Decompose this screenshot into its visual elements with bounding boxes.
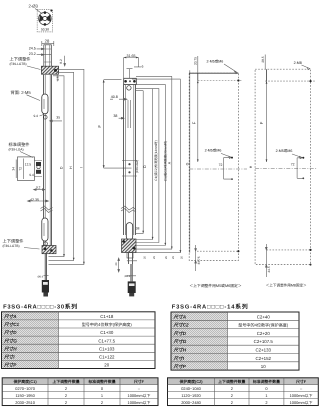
svg-text:33.75: 33.75 xyxy=(197,256,201,264)
svg-text:20.75: 20.75 xyxy=(194,57,198,65)
svg-text:上下调整件: 上下调整件 xyxy=(10,57,31,62)
svg-text:(F39-LGA): (F39-LGA) xyxy=(135,160,139,173)
rect1 mounting fig M5/M6 xyxy=(189,73,247,260)
svg-text:35: 35 xyxy=(56,116,60,120)
svg-text:尺寸G: 尺寸G xyxy=(173,339,187,344)
svg-text:9.4: 9.4 xyxy=(29,173,34,177)
svg-text:34: 34 xyxy=(11,167,15,171)
rect2 mounting fig M8 xyxy=(255,69,317,265)
column 2 body xyxy=(124,85,136,236)
svg-text:72: 72 xyxy=(18,167,22,171)
svg-text:F: F xyxy=(97,125,102,128)
svg-text:2000~2480: 2000~2480 xyxy=(181,400,201,405)
svg-text:2: 2 xyxy=(101,400,103,405)
top view detail box xyxy=(37,10,52,32)
break marks col2 xyxy=(121,206,136,213)
svg-text:H: H xyxy=(69,166,73,169)
svg-text:C1+122: C1+122 xyxy=(99,354,115,359)
svg-text:2-M8: 2-M8 xyxy=(294,61,302,65)
svg-text:D: D xyxy=(143,165,147,168)
svg-text:保护高度(C1): 保护高度(C1) xyxy=(13,379,38,384)
col1 dimension lines D H I xyxy=(49,69,85,264)
svg-text:保护高度(C2): 保护高度(C2) xyxy=(178,379,203,384)
svg-text:Ø6.6: Ø6.6 xyxy=(125,275,131,278)
dim table 14 series xyxy=(171,312,299,370)
svg-text:2030~2510: 2030~2510 xyxy=(15,400,35,405)
svg-text:50.38: 50.38 xyxy=(41,27,49,31)
svg-text:28: 28 xyxy=(45,38,50,43)
svg-text:40.8: 40.8 xyxy=(111,95,118,99)
svg-text:38: 38 xyxy=(113,114,117,118)
svg-text:42.35: 42.35 xyxy=(30,198,39,202)
F dim line xyxy=(103,80,132,168)
connector col2 xyxy=(128,281,136,293)
svg-text:1150~1950: 1150~1950 xyxy=(15,393,35,398)
svg-text:2-Ø3: 2-Ø3 xyxy=(29,4,39,9)
svg-text:(F39-LGA): (F39-LGA) xyxy=(9,148,24,152)
svg-text:I: I xyxy=(79,167,83,168)
svg-text:C2+20: C2+20 xyxy=(257,331,271,336)
column 1 body xyxy=(44,75,52,246)
svg-text:(F39-LGTB): (F39-LGTB) xyxy=(10,62,27,66)
svg-text:0270~1070: 0270~1070 xyxy=(15,386,35,391)
column 2 cap xyxy=(124,78,137,84)
svg-text:尺寸G: 尺寸G xyxy=(3,338,17,343)
col2 dimension lines D C14 C30 A G xyxy=(132,70,190,253)
svg-text:标准调整件数量: 标准调整件数量 xyxy=(87,379,115,384)
svg-text:＜上下调整件用M5或M6固定＞: ＜上下调整件用M5或M6固定＞ xyxy=(189,283,242,288)
svg-text:2: 2 xyxy=(65,400,67,405)
slot lower xyxy=(42,218,48,241)
svg-text:1000mm以下: 1000mm以下 xyxy=(290,400,313,405)
svg-text:标准调整件: 标准调整件 xyxy=(9,142,30,147)
svg-text:12.5: 12.5 xyxy=(25,162,31,166)
slot upper F39 xyxy=(42,94,48,114)
svg-text:1: 1 xyxy=(101,393,103,398)
svg-text:尺寸I: 尺寸I xyxy=(3,354,15,359)
svg-text:尺寸F: 尺寸F xyxy=(133,379,145,384)
svg-text:尺寸C1: 尺寸C1 xyxy=(3,322,20,327)
cable col2 xyxy=(128,253,132,281)
column 1 top piece xyxy=(44,45,52,68)
hatched bracket top xyxy=(41,66,58,74)
svg-text:2: 2 xyxy=(65,393,67,398)
svg-text:28.5: 28.5 xyxy=(261,56,265,62)
svg-text:C1+103: C1+103 xyxy=(99,346,115,351)
dim table 30 series xyxy=(2,312,156,369)
svg-text:Ø6.6: Ø6.6 xyxy=(38,276,44,279)
bracket count table C1 xyxy=(2,378,158,406)
svg-text:F3SG-4RA□□□□-30系列: F3SG-4RA□□□□-30系列 xyxy=(3,303,77,310)
svg-text:型号中的4位数字(保护高度): 型号中的4位数字(保护高度) xyxy=(82,322,133,327)
svg-text:0240~1040: 0240~1040 xyxy=(181,386,201,391)
svg-text:尺寸D: 尺寸D xyxy=(3,330,17,335)
svg-text:8.2: 8.2 xyxy=(59,59,63,64)
svg-text:C2+40: C2+40 xyxy=(257,314,271,319)
svg-text:尺寸I: 尺寸I xyxy=(173,356,185,361)
svg-text:C1(或C2)检测宽度(14mm时): C1(或C2)检测宽度(14mm时) xyxy=(154,140,158,180)
svg-text:尺寸H: 尺寸H xyxy=(173,348,187,353)
svg-text:尺寸A: 尺寸A xyxy=(173,314,187,319)
std bracket detail xyxy=(18,157,43,181)
svg-text:1000mm以下: 1000mm以下 xyxy=(128,400,151,405)
svg-text:尺寸H: 尺寸H xyxy=(3,346,17,351)
svg-text:9.4: 9.4 xyxy=(34,114,39,118)
svg-text:C1+18: C1+18 xyxy=(100,314,114,319)
svg-text:C1(或C2)检测宽度(30mm时): C1(或C2)检测宽度(30mm时) xyxy=(164,141,168,181)
svg-text:F3SG-4RA□□□□-14系列: F3SG-4RA□□□□-14系列 xyxy=(172,303,248,310)
svg-text:尺寸F: 尺寸F xyxy=(295,379,307,384)
col2 bottom bracket xyxy=(122,223,137,258)
svg-text:尺寸P: 尺寸P xyxy=(173,364,187,369)
svg-text:6: 6 xyxy=(142,64,144,68)
svg-text:20: 20 xyxy=(104,363,109,368)
svg-text:2: 2 xyxy=(231,400,233,405)
svg-text:上下调整件数量: 上下调整件数量 xyxy=(52,379,79,384)
svg-text:38: 38 xyxy=(136,227,140,231)
svg-text:2-M5或M6: 2-M5或M6 xyxy=(207,58,224,63)
svg-text:9.2: 9.2 xyxy=(36,186,41,190)
hatched bracket bottom xyxy=(42,246,56,254)
svg-text:C2+133: C2+133 xyxy=(255,348,271,353)
svg-text:F: F xyxy=(259,121,264,124)
connector col1 xyxy=(42,280,49,293)
svg-text:72: 72 xyxy=(219,163,223,167)
svg-text:2-M5或M6: 2-M5或M6 xyxy=(276,148,293,153)
svg-text:F: F xyxy=(191,121,196,124)
cable col1 xyxy=(45,254,46,280)
svg-text:标准调整件数量: 标准调整件数量 xyxy=(252,379,280,384)
svg-text:1: 1 xyxy=(265,393,267,398)
svg-text:1000mm以下: 1000mm以下 xyxy=(128,393,151,398)
svg-text:背面: 2-M5: 背面: 2-M5 xyxy=(11,90,32,95)
break marks col1 xyxy=(41,206,53,213)
svg-text:上下调整件: 上下调整件 xyxy=(3,239,24,244)
svg-text:尺寸D: 尺寸D xyxy=(173,331,187,336)
svg-text:1120~1920: 1120~1920 xyxy=(181,393,201,398)
svg-text:10: 10 xyxy=(261,364,266,369)
svg-text:23.2: 23.2 xyxy=(29,52,36,56)
svg-text:72: 72 xyxy=(291,163,295,167)
svg-text:尺寸A: 尺寸A xyxy=(3,314,17,319)
svg-text:24.5: 24.5 xyxy=(29,46,36,50)
svg-text:2: 2 xyxy=(65,386,67,391)
svg-text:4.5: 4.5 xyxy=(56,76,60,81)
svg-text:2: 2 xyxy=(231,386,233,391)
svg-text:2: 2 xyxy=(265,400,267,405)
svg-text:尺寸P: 尺寸P xyxy=(3,363,17,368)
bracket count table C2 xyxy=(168,378,319,406)
svg-text:C2+152: C2+152 xyxy=(255,356,271,361)
svg-text:H: H xyxy=(249,165,253,168)
svg-text:1000mm以下: 1000mm以下 xyxy=(290,393,313,398)
svg-text:尺寸C2: 尺寸C2 xyxy=(173,323,190,328)
svg-text:＜上下调整件用M8固定＞: ＜上下调整件用M8固定＞ xyxy=(266,283,307,288)
col2 middle bracket xyxy=(122,160,139,176)
svg-text:2: 2 xyxy=(231,393,233,398)
svg-text:(F39-LGTB): (F39-LGTB) xyxy=(3,244,20,248)
svg-text:型号中的4位数字(保护高度): 型号中的4位数字(保护高度) xyxy=(238,323,289,328)
svg-text:C1+30: C1+30 xyxy=(100,330,114,335)
svg-text:上下调整件数量: 上下调整件数量 xyxy=(218,379,245,384)
svg-text:2-M5或M6: 2-M5或M6 xyxy=(205,148,222,153)
svg-text:C2+107.5: C2+107.5 xyxy=(254,339,274,344)
svg-text:D: D xyxy=(60,166,64,169)
col2 inner slot xyxy=(128,100,131,128)
svg-text:C1+77.5: C1+77.5 xyxy=(98,338,115,343)
